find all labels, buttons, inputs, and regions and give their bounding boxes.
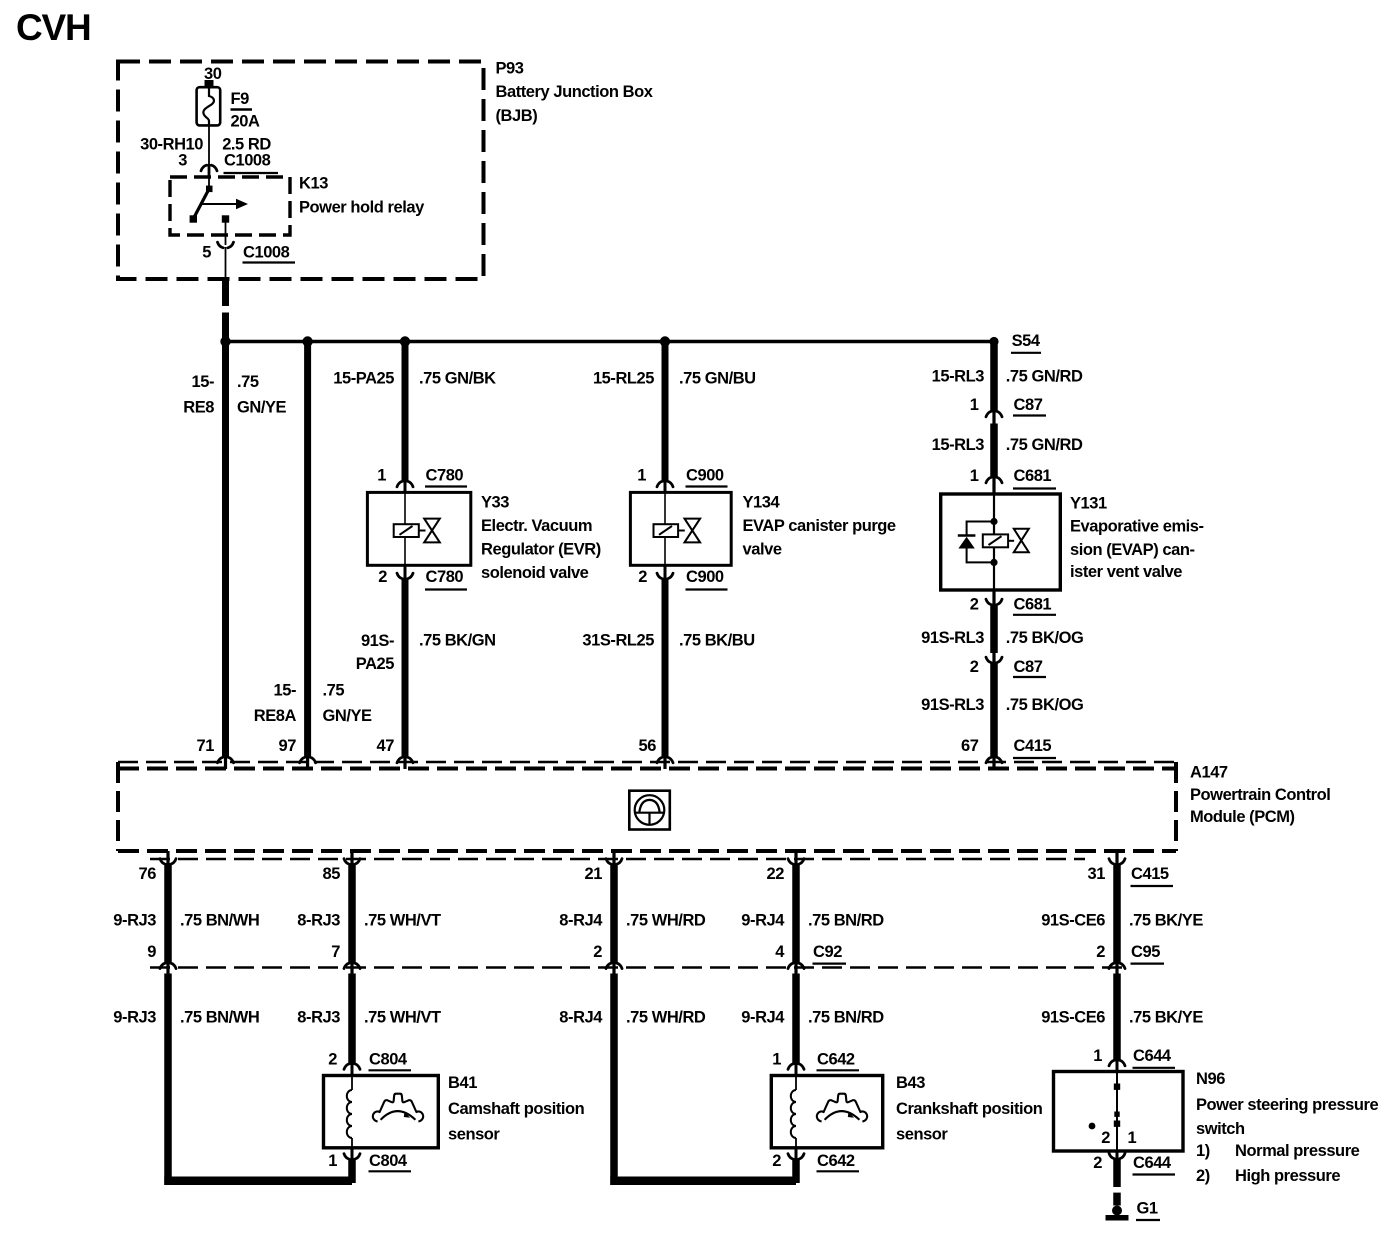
svg-text:5: 5 [202, 243, 211, 261]
switch N96 internal line [1116, 1072, 1118, 1152]
svg-text:C900: C900 [686, 568, 724, 586]
svg-text:C642: C642 [817, 1152, 855, 1170]
wire W5b line B to N96 [1113, 974, 1121, 1061]
connector skirt PCM pin 67 [986, 757, 1002, 763]
connector skirt PCM pin 71 [218, 757, 234, 763]
wire W4 Y134 to PCM pin 56 [662, 578, 669, 758]
svg-text:91S-RL3: 91S-RL3 [921, 629, 984, 647]
svg-text:sion (EVAP) can-: sion (EVAP) can- [1070, 541, 1195, 559]
svg-text:.75 WH/VT: .75 WH/VT [364, 911, 441, 929]
svg-text:30-RH10: 30-RH10 [140, 136, 203, 154]
wire pin5 to P93 box edge [225, 247, 227, 280]
wire W5 S54 to C87 [990, 342, 998, 412]
svg-text:.75: .75 [323, 682, 345, 700]
connector C900 pin 1 [657, 481, 673, 487]
wire elbow bottom right [610, 1177, 796, 1186]
valve Y33 internal wire bottom [404, 537, 406, 565]
wire W3 bus to Y33 [402, 342, 409, 483]
svg-text:2: 2 [970, 658, 979, 676]
node Y131 upper junction [990, 518, 997, 525]
valve Y134 box [630, 492, 731, 565]
svg-text:91S-CE6: 91S-CE6 [1041, 911, 1105, 929]
svg-text:2): 2) [1196, 1167, 1210, 1185]
svg-text:15-: 15- [192, 373, 215, 391]
svg-text:C415: C415 [1131, 865, 1169, 883]
diode D (Y131) triangle [958, 537, 974, 549]
valve Y33 box [367, 492, 470, 565]
switch N96 box [1054, 1072, 1184, 1152]
svg-text:GN/YE: GN/YE [237, 399, 287, 417]
svg-text:C804: C804 [369, 1051, 408, 1069]
connector C642 pin 1 [788, 1064, 804, 1070]
svg-text:.75 BK/OG: .75 BK/OG [1006, 696, 1084, 714]
sensor B43 internal wire bottom [795, 1138, 797, 1148]
svg-text:21: 21 [585, 865, 603, 883]
wire W4 bus to Y134 [662, 342, 669, 483]
harness line B [150, 966, 1122, 969]
connector skirt line B wire 9 [160, 963, 176, 969]
relay K13 output wire [225, 222, 227, 245]
svg-text:Power steering pressure: Power steering pressure [1196, 1096, 1379, 1114]
sensor B41 internal wire bottom [351, 1138, 353, 1148]
sensor B43 internal wire top [795, 1076, 797, 1091]
connector C87 pin 2 [992, 651, 995, 664]
svg-text:Y33: Y33 [481, 494, 509, 512]
svg-text:1: 1 [970, 467, 979, 485]
svg-text:C1008: C1008 [243, 243, 290, 261]
switch N96 mark lower [1114, 1121, 1120, 1127]
svg-text:7: 7 [331, 943, 340, 961]
relay K13 output contact square [222, 215, 229, 222]
svg-text:.75 WH/VT: .75 WH/VT [364, 1009, 441, 1027]
svg-text:GN/YE: GN/YE [323, 707, 373, 725]
svg-text:85: 85 [323, 865, 341, 883]
svg-text:C780: C780 [426, 467, 464, 485]
connector skirt line B wire 7 [344, 963, 360, 969]
svg-text:1): 1) [1196, 1142, 1210, 1160]
connector skirt line B wire 4 C92 [788, 963, 804, 969]
switch N96 contact dot [1089, 1123, 1096, 1130]
svg-text:(BJB): (BJB) [496, 107, 538, 125]
svg-text:.75 BK/OG: .75 BK/OG [1006, 629, 1084, 647]
valve Y131 bowtie symbol [1014, 529, 1029, 552]
svg-text:Module (PCM): Module (PCM) [1190, 808, 1295, 826]
svg-text:Crankshaft position: Crankshaft position [896, 1100, 1043, 1118]
svg-text:22: 22 [767, 865, 785, 883]
svg-text:C95: C95 [1131, 943, 1160, 961]
svg-text:B43: B43 [896, 1074, 925, 1092]
svg-text:9: 9 [147, 943, 156, 961]
svg-text:P93: P93 [496, 60, 524, 78]
wire W3b PCM to line B [610, 864, 618, 964]
diode branch wire bottom [967, 549, 994, 563]
fraction bar F9/20A [231, 108, 253, 110]
bus wire horizontal [226, 340, 995, 344]
wire W2 bus to PCM pin 97 [304, 342, 311, 758]
svg-text:C87: C87 [1014, 396, 1043, 414]
svg-text:15-: 15- [274, 682, 297, 700]
svg-text:3: 3 [178, 152, 187, 170]
svg-text:CVH: CVH [16, 7, 91, 48]
wire W2b PCM to line B [348, 864, 356, 964]
connector skirt line B wire 2 C95 [1109, 963, 1125, 969]
svg-text:.75 BK/GN: .75 BK/GN [419, 632, 496, 650]
svg-text:9-RJ3: 9-RJ3 [113, 1009, 156, 1027]
svg-text:C92: C92 [813, 943, 842, 961]
wire W1 bus to PCM pin 71 [222, 342, 229, 758]
svg-text:1: 1 [772, 1051, 781, 1069]
connector C681 pin 2 [992, 590, 995, 606]
svg-text:.75 BN/RD: .75 BN/RD [808, 1009, 884, 1027]
valve Y134 internal wire top [664, 492, 666, 524]
svg-text:8-RJ3: 8-RJ3 [297, 911, 340, 929]
valve Y33 internal wire top [404, 492, 406, 524]
relay K13 contact square top [206, 186, 213, 193]
sensor B43 coil [791, 1090, 796, 1138]
terminal square at fuse top [205, 80, 214, 87]
svg-text:C681: C681 [1014, 596, 1052, 614]
svg-text:.75 GN/BU: .75 GN/BU [679, 370, 756, 388]
svg-text:C780: C780 [426, 568, 464, 586]
wire elbow bottom left [164, 1177, 352, 1186]
valve Y134 link to valve symbol [678, 530, 685, 532]
sensor B41 reluctor gear icon [373, 1094, 423, 1122]
svg-text:.75 BN/RD: .75 BN/RD [808, 911, 884, 929]
wire W4b PCM to line B [792, 864, 800, 964]
svg-text:2: 2 [1096, 943, 1105, 961]
svg-text:2: 2 [1093, 1154, 1102, 1172]
svg-text:.75 BK/YE: .75 BK/YE [1129, 1009, 1203, 1027]
relay K13 contact square blade end [190, 215, 197, 222]
svg-text:C415: C415 [1014, 737, 1052, 755]
valve Y131 internal wire top [993, 494, 995, 534]
relay K13 input wire [208, 177, 210, 189]
svg-text:2: 2 [378, 568, 387, 586]
svg-text:15-PA25: 15-PA25 [333, 370, 394, 388]
sensor B43 reluctor gear icon [817, 1094, 867, 1122]
svg-text:47: 47 [377, 737, 395, 755]
box P93 Battery Junction Box [118, 62, 484, 280]
svg-text:2: 2 [772, 1152, 781, 1170]
svg-text:Y134: Y134 [743, 494, 781, 512]
wire W1 dashed thick below P93 [222, 280, 229, 306]
svg-text:C642: C642 [817, 1051, 855, 1069]
ground G1 symbol [1112, 1206, 1122, 1216]
relay K13 switch blade [193, 189, 209, 219]
connector C780 pin 2 [404, 565, 407, 580]
wire W5 C681 to C87 [990, 604, 998, 653]
connector C804 pin 1 [351, 1148, 354, 1160]
sensor B41 coil [347, 1090, 352, 1138]
svg-text:sensor: sensor [448, 1126, 500, 1144]
svg-text:.75 WH/RD: .75 WH/RD [626, 1009, 706, 1027]
PCM steering wheel icon box [629, 791, 670, 830]
sensor B41 box [324, 1076, 439, 1148]
svg-text:PA25: PA25 [356, 655, 395, 673]
connector C1008 pin 3 [201, 165, 217, 171]
switch N96 mark middle [1114, 1112, 1119, 1117]
svg-text:20A: 20A [231, 112, 260, 130]
svg-text:C900: C900 [686, 467, 724, 485]
svg-text:.75 GN/RD: .75 GN/RD [1006, 436, 1083, 454]
fuse F9 body [197, 87, 221, 125]
svg-text:91S-RL3: 91S-RL3 [921, 696, 984, 714]
svg-text:15-RL25: 15-RL25 [593, 370, 654, 388]
svg-text:C644: C644 [1133, 1047, 1172, 1065]
wire W2b line B to B41 [348, 974, 356, 1065]
svg-text:Camshaft position: Camshaft position [448, 1100, 585, 1118]
valve Y33 link to valve symbol [419, 530, 426, 532]
svg-text:31: 31 [1088, 865, 1106, 883]
svg-text:1: 1 [970, 396, 979, 414]
node junction W1 [220, 336, 230, 346]
svg-text:67: 67 [961, 737, 979, 755]
PCM connector line bottom [150, 858, 1085, 861]
svg-text:RE8: RE8 [183, 399, 214, 417]
connector C87 pin 1 [986, 411, 1002, 417]
svg-text:2: 2 [1101, 1129, 1110, 1147]
valve Y134 coil box [654, 524, 679, 537]
connector C900 pin 2 [664, 565, 667, 580]
svg-text:sensor: sensor [896, 1126, 948, 1144]
svg-text:2: 2 [593, 943, 602, 961]
svg-text:Electr. Vacuum: Electr. Vacuum [481, 517, 592, 535]
svg-text:2: 2 [328, 1051, 337, 1069]
connector skirt PCM pin 85 [350, 851, 353, 866]
wire W5 C87 to PCM pin 67 [990, 662, 998, 758]
svg-text:ister vent valve: ister vent valve [1070, 563, 1182, 581]
PCM box A147 [118, 762, 1176, 851]
svg-text:.75: .75 [237, 373, 259, 391]
wire W3b line B to elbow [610, 974, 618, 1186]
svg-text:C644: C644 [1133, 1154, 1172, 1172]
connector C804 pin 2 [344, 1064, 360, 1070]
svg-text:15-RL3: 15-RL3 [932, 368, 985, 386]
svg-text:.75 BN/WH: .75 BN/WH [180, 1009, 259, 1027]
svg-text:A147: A147 [1190, 764, 1228, 782]
valve Y131 coil box [983, 534, 1008, 547]
svg-text:.75 WH/RD: .75 WH/RD [626, 911, 706, 929]
wire B43 pin2 to elbow [792, 1159, 800, 1184]
connector C1008 pin 5 [218, 242, 234, 248]
svg-text:9-RJ3: 9-RJ3 [113, 911, 156, 929]
svg-text:C804: C804 [369, 1152, 408, 1170]
svg-text:C681: C681 [1014, 467, 1052, 485]
valve Y33 coil box [394, 524, 419, 537]
svg-text:8-RJ4: 8-RJ4 [559, 911, 603, 929]
connector skirt PCM pin 47 [397, 757, 413, 763]
wire fuse to pin 3 [208, 125, 210, 166]
connector skirt PCM pin 97 [300, 757, 316, 763]
node junction W3 [400, 336, 410, 346]
svg-text:1: 1 [1128, 1129, 1137, 1147]
connector C780 pin 1 [397, 481, 413, 487]
node S54 [989, 337, 998, 346]
svg-text:71: 71 [197, 737, 215, 755]
connector C644 pin 2 [1116, 1151, 1119, 1160]
svg-text:1: 1 [637, 467, 646, 485]
connector C681 pin 1 [986, 477, 1002, 483]
svg-text:76: 76 [139, 865, 157, 883]
relay K13 box [170, 177, 290, 235]
svg-text:switch: switch [1196, 1120, 1245, 1138]
svg-text:Powertrain Control: Powertrain Control [1190, 786, 1330, 804]
wire W3 Y33 to PCM pin 47 [402, 578, 409, 758]
svg-text:valve: valve [743, 541, 782, 559]
relay K13 actuating arrow [202, 203, 237, 205]
svg-text:Evaporative emis-: Evaporative emis- [1070, 518, 1204, 536]
switch N96 mark upper [1114, 1084, 1120, 1090]
svg-text:2: 2 [970, 596, 979, 614]
node Y131 lower junction [990, 559, 997, 566]
svg-text:C87: C87 [1014, 658, 1043, 676]
valve Y131 internal wire bottom [993, 547, 995, 590]
svg-text:solenoid valve: solenoid valve [481, 564, 589, 582]
svg-text:1: 1 [377, 467, 386, 485]
connector skirt PCM pin 31 [1115, 851, 1118, 866]
svg-text:91S-CE6: 91S-CE6 [1041, 1009, 1105, 1027]
svg-text:.75 BN/WH: .75 BN/WH [180, 911, 259, 929]
svg-text:.75 BK/BU: .75 BK/BU [679, 632, 755, 650]
wire N96 to ground [1113, 1158, 1121, 1187]
svg-text:Power hold relay: Power hold relay [299, 198, 425, 216]
connector C644 pin 1 [1109, 1060, 1125, 1066]
PCM steering wheel icon [635, 795, 665, 825]
connector C642 pin 2 [795, 1148, 798, 1160]
svg-text:.75 BK/YE: .75 BK/YE [1129, 911, 1203, 929]
svg-text:2: 2 [638, 568, 647, 586]
diode D (Y131) cathode bar [958, 534, 976, 536]
connector skirt line B wire 2 [606, 963, 622, 969]
svg-text:1: 1 [1093, 1047, 1102, 1065]
svg-text:8-RJ3: 8-RJ3 [297, 1009, 340, 1027]
connector skirt PCM pin 21 [612, 851, 615, 866]
svg-text:9-RJ4: 9-RJ4 [741, 911, 785, 929]
svg-text:.75 GN/RD: .75 GN/RD [1006, 368, 1083, 386]
wire B41 pin1 to elbow [348, 1159, 356, 1184]
node junction W2 [302, 336, 312, 346]
PCM connector line top [118, 761, 1176, 764]
wire W1b PCM to line B [164, 864, 172, 964]
svg-text:97: 97 [279, 737, 297, 755]
svg-text:B41: B41 [448, 1074, 477, 1092]
svg-text:High pressure: High pressure [1235, 1167, 1340, 1185]
connector skirt PCM pin 76 [166, 851, 169, 866]
svg-text:G1: G1 [1137, 1200, 1158, 1218]
svg-text:S54: S54 [1012, 332, 1041, 350]
wire W5 C87 to C681 [990, 424, 998, 478]
node junction W4 [660, 336, 670, 346]
svg-text:8-RJ4: 8-RJ4 [559, 1009, 603, 1027]
svg-text:1: 1 [328, 1152, 337, 1170]
wire W5b PCM to line B [1113, 864, 1121, 964]
svg-text:.75 GN/BK: .75 GN/BK [419, 370, 496, 388]
svg-text:C1008: C1008 [224, 152, 271, 170]
connector skirt PCM pin 56 [657, 757, 673, 763]
svg-text:Battery Junction Box: Battery Junction Box [496, 83, 654, 101]
valve Y33 bowtie symbol [424, 519, 440, 543]
diode branch wire top [967, 522, 994, 536]
svg-text:15-RL3: 15-RL3 [932, 436, 985, 454]
svg-text:N96: N96 [1196, 1070, 1225, 1088]
svg-text:Y131: Y131 [1070, 494, 1107, 512]
svg-text:9-RJ4: 9-RJ4 [741, 1009, 785, 1027]
sensor B41 internal wire top [351, 1076, 353, 1091]
svg-text:RE8A: RE8A [254, 707, 297, 725]
valve Y134 bowtie symbol [685, 519, 701, 543]
wire W4b line B to B43 [792, 974, 800, 1065]
svg-text:91S-: 91S- [361, 632, 394, 650]
sensor B43 box [771, 1076, 882, 1148]
svg-text:56: 56 [639, 737, 657, 755]
svg-text:4: 4 [775, 943, 785, 961]
svg-text:K13: K13 [299, 175, 328, 193]
svg-text:31S-RL25: 31S-RL25 [582, 632, 654, 650]
valve Y134 internal wire bottom [664, 537, 666, 565]
svg-text:Regulator (EVR): Regulator (EVR) [481, 541, 601, 559]
svg-text:F9: F9 [231, 90, 250, 108]
connector skirt PCM pin 22 [794, 851, 797, 866]
valve Y131 link to valve symbol [1008, 540, 1014, 542]
valve Y131 box [941, 494, 1061, 590]
svg-text:EVAP canister purge: EVAP canister purge [743, 517, 896, 535]
svg-text:Normal pressure: Normal pressure [1235, 1142, 1360, 1160]
wire W1b line B to elbow [164, 974, 172, 1186]
fuse F9 element [203, 83, 214, 125]
